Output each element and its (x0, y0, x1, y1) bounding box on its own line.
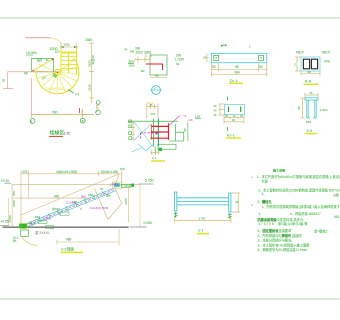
svg-text:重-5YKXL: 重-5YKXL (35, 230, 50, 235)
svg-text:施工说明: 施工说明 (273, 168, 285, 173)
svg-text:1050: 1050 (12, 200, 16, 207)
svg-text:76: 76 (309, 91, 313, 95)
svg-text:4、本工程所有Hxx焊接缝xx施工图集': 4、本工程所有Hxx焊接缝xx施工图集' (258, 242, 311, 247)
svg-text:976: 976 (64, 43, 70, 47)
svg-text:1560: 1560 (85, 38, 92, 42)
svg-text:B2: B2 (141, 69, 145, 73)
svg-text:米150: 米150 (52, 206, 60, 211)
svg-text:2-#63: 2-#63 (320, 108, 328, 112)
svg-text:2、所有焊缝均匀焊接件,连接好': 2、所有焊缝均匀焊接件,连接好' (258, 233, 303, 238)
svg-text:1-1: 1-1 (152, 156, 157, 160)
svg-text:2.: 2. (250, 204, 254, 206)
svg-text:98: 98 (2, 78, 6, 82)
svg-text:2-M16: 2-M16 (43, 217, 51, 221)
svg-text:98: 98 (235, 200, 239, 204)
svg-text:张6: 张6 (106, 193, 111, 198)
svg-text:1790: 1790 (199, 216, 206, 220)
svg-text:张6: 张6 (37, 58, 42, 63)
svg-text:1.: 1. (250, 176, 254, 178)
svg-text:〈#4〉: 〈#4〉 (322, 60, 332, 64)
svg-text:2L50x5: 2L50x5 (66, 200, 76, 204)
svg-text:25: 25 (225, 114, 228, 118)
svg-text:#8C#: #8C# (322, 51, 330, 55)
svg-text:水6: 水6 (81, 194, 86, 199)
svg-text:50: 50 (100, 187, 104, 191)
svg-text:780: 780 (52, 110, 58, 114)
svg-text:#63: #63 (306, 120, 311, 124)
svg-text:4、焊接质量 6085117: 4、焊接质量 6085117 (290, 211, 321, 216)
svg-text:489: 489 (66, 238, 72, 242)
svg-text:1460x24=2630: 1460x24=2630 (56, 170, 77, 174)
svg-text:25: 25 (150, 103, 154, 107)
svg-text:984: 984 (235, 70, 241, 74)
svg-text:5-5: 5-5 (307, 129, 313, 133)
svg-text:40: 40 (233, 114, 236, 118)
svg-text:25: 25 (203, 56, 207, 60)
svg-text:#8C#: #8C# (296, 51, 304, 55)
svg-text:25: 25 (214, 113, 217, 117)
svg-text:2、: 2、 (262, 192, 267, 196)
svg-text:5.250: 5.250 (145, 179, 154, 183)
svg-text:A-A: A-A (305, 80, 312, 84)
svg-text:5、钢管型号为20,焊缝高度21.5mm': 5、钢管型号为20,焊缝高度21.5mm' (258, 247, 309, 252)
svg-text:1-1: 1-1 (198, 228, 204, 232)
svg-text:3b: 3b (46, 58, 50, 62)
svg-text:40途40: 40途40 (90, 55, 95, 65)
svg-text:98: 98 (155, 74, 159, 78)
svg-text:3、螺栓孔:: 3、螺栓孔: (257, 199, 273, 204)
svg-text:YHB90-DB40: YHB90-DB40 (46, 87, 65, 91)
svg-text:1:2: 1:2 (75, 92, 80, 96)
svg-text:+5.000: +5.000 (26, 51, 37, 55)
svg-text:50: 50 (212, 65, 216, 69)
svg-text:34: 34 (124, 48, 128, 52)
svg-text:KJ-1: KJ-1 (227, 133, 235, 137)
svg-text:1500: 1500 (8, 215, 12, 222)
svg-text:98: 98 (235, 65, 239, 69)
svg-text:248: 248 (130, 50, 135, 54)
svg-text:5 7 0-7 5 5: 5 7 0-7 5 5 (259, 222, 274, 226)
svg-text:1: 1 (249, 45, 251, 49)
svg-text:3、本部分焊接好与横向,: 3、本部分焊接好与横向, (258, 238, 293, 243)
svg-text:98: 98 (308, 70, 312, 74)
svg-text:2、: 2、 (259, 212, 264, 216)
svg-text:25: 25 (214, 104, 217, 108)
svg-text:楼梯区: 楼梯区 (50, 130, 65, 137)
svg-text:栏板.: 栏板. (262, 179, 269, 184)
svg-text:150: 150 (55, 49, 60, 53)
svg-text:0.050: 0.050 (144, 221, 153, 225)
svg-text:DL-1: DL-1 (230, 79, 238, 83)
svg-text:1:30: 1:30 (64, 132, 71, 136)
svg-text:1560: 1560 (87, 84, 91, 91)
svg-text:B类: B类 (334, 192, 340, 197)
svg-text:250: 250 (12, 191, 16, 196)
svg-text:防腐涂装等级中性层标准,具体为:: 防腐涂装等级中性层标准,具体为: (258, 217, 305, 222)
svg-text:90: 90 (232, 118, 235, 122)
svg-text:651类: 651类 (334, 214, 340, 219)
svg-text:2000: 2000 (129, 64, 136, 68)
svg-text:—: — (154, 92, 157, 96)
svg-text:303: 303 (151, 112, 156, 116)
svg-text:25: 25 (240, 114, 243, 118)
svg-text:m6: m6 (189, 118, 193, 122)
svg-text:B: B (82, 119, 84, 123)
svg-text:92: 92 (176, 62, 180, 66)
svg-text:150: 150 (88, 193, 93, 197)
svg-text:1、本栏杆竖杆为40x40x4方钢管与扁钢,固定在楼梯上,其: 1、本栏杆竖杆为40x40x4方钢管与扁钢,固定在楼梯上,其余如图附件' (257, 174, 340, 179)
svg-text:2中25: 2中25 (110, 182, 118, 187)
svg-text:98: 98 (183, 128, 187, 132)
svg-text:98: 98 (24, 72, 28, 76)
svg-text:1、所有构件防腐刷漆等级:(除锈2级,7级以及两种防锈下漆': 1、所有构件防腐刷漆等级:(除锈2级,7级以及两种防锈下漆' (262, 204, 340, 209)
svg-text:98: 98 (297, 106, 301, 110)
svg-text:150: 150 (120, 167, 125, 171)
svg-text:490: 490 (54, 194, 60, 198)
svg-text:150: 150 (195, 115, 200, 119)
svg-text:金+掘妆2:: 金+掘妆2: (314, 229, 328, 234)
svg-text:■=4: ■=4 (221, 44, 227, 48)
svg-text:2000: 2000 (136, 51, 143, 55)
svg-text:L=150: L=150 (175, 58, 184, 62)
svg-text:4x140: 4x140 (28, 222, 36, 226)
svg-text:一6: 一6 (182, 114, 187, 118)
svg-text:475: 475 (22, 170, 28, 174)
svg-text:参G级,Q4参与2级,等: 参G级,Q4参与2级,等 (278, 221, 308, 226)
svg-text:2-2剖面: 2-2剖面 (61, 247, 74, 252)
svg-text:5、固定图纸妆连接要求': 5、固定图纸妆连接要求' (258, 228, 293, 233)
svg-text:150: 150 (35, 215, 40, 219)
svg-text:40: 40 (214, 109, 217, 113)
svg-text:hxCZ(2L75)B: hxCZ(2L75)B (90, 206, 108, 210)
svg-text:150x9=1350: 150x9=1350 (101, 170, 119, 174)
svg-text:3150: 3150 (124, 198, 128, 205)
svg-text:+3.30: +3.30 (1, 179, 10, 183)
svg-text:50: 50 (259, 65, 263, 69)
svg-text:B6: B6 (13, 239, 17, 243)
svg-text:2、本工程钢材均采用Q235B钢制成,紧固件连接板 6007: 2、本工程钢材均采用Q235B钢制成,紧固件连接板 600730. (258, 187, 340, 192)
svg-text:M=6: M=6 (125, 184, 131, 188)
svg-text:2000: 2000 (144, 51, 151, 55)
